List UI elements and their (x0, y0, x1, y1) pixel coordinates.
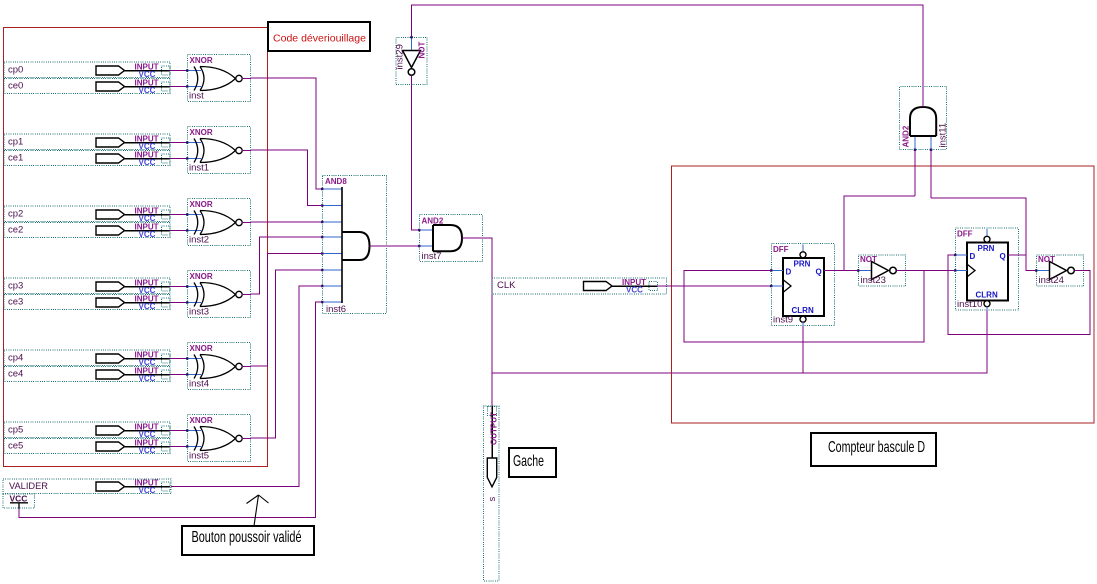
svg-text:ce2: ce2 (8, 225, 23, 236)
AND8 gate inst6 (321, 176, 387, 316)
NOT gate inst24 (1035, 255, 1084, 286)
svg-text:inst2: inst2 (189, 235, 209, 246)
wire cp5 to xnor inst5 (170, 430, 187, 432)
input pin cp3 (4, 278, 170, 295)
svg-text:ce1: ce1 (8, 153, 23, 164)
wire NOT inst29 out down to AND2 inst7 in1 (412, 85, 420, 230)
svg-text:NOT: NOT (418, 42, 427, 59)
svg-text:Gache: Gache (513, 453, 544, 470)
XNOR gate inst2 (186, 199, 251, 246)
svg-text:inst5: inst5 (189, 451, 209, 462)
region box: Compteur bascule D (672, 166, 1095, 423)
input pin ce4 (4, 366, 170, 383)
svg-text:inst11: inst11 (938, 123, 949, 148)
VCC power symbol (3, 494, 35, 509)
svg-text:cp3: cp3 (8, 281, 23, 292)
wire DFF inst9 CLRN down to reset line (802, 326, 804, 373)
svg-text:Compteur bascule D: Compteur bascule D (828, 439, 925, 456)
DFF inst9 (770, 244, 835, 327)
wire ce3 to xnor inst3 (170, 302, 187, 304)
svg-text:inst3: inst3 (189, 307, 209, 318)
svg-text:ce5: ce5 (8, 441, 23, 452)
XNOR gate inst4 (186, 343, 251, 390)
wire DFF inst10 Q to AND2 inst11 in2 and NOT inst24 (931, 150, 1036, 271)
svg-text:ce0: ce0 (8, 81, 23, 92)
svg-text:AND8: AND8 (325, 177, 347, 186)
input pin cp0 (4, 62, 170, 79)
DFF inst10 (954, 228, 1019, 311)
wire xnor inst5 out to AND8 in6 (251, 270, 322, 438)
wire ce5 to xnor inst5 (170, 446, 187, 448)
wire cp4 to xnor inst4 (170, 358, 187, 360)
label box "Compteur bascule D" (811, 433, 936, 466)
wire VCC to AND8 in8 (19, 302, 322, 518)
wire cp3 to xnor inst3 (170, 286, 187, 288)
input pin ce2 (4, 222, 170, 239)
NOT gate inst23 (857, 255, 906, 286)
svg-text:inst7: inst7 (422, 251, 442, 262)
wire NOT inst23 out to DFF inst10 clock and feedback to DFF inst9 D (684, 271, 955, 343)
input pin cp1 (4, 134, 170, 151)
XNOR gate inst (186, 55, 251, 102)
wire xnor inst3 out to AND8 in4 (251, 237, 322, 294)
wire CLRN reset line (492, 311, 987, 374)
input pin VALIDER (3, 479, 171, 496)
svg-text:inst29: inst29 (395, 44, 406, 69)
wire NOT inst24 out feedback to DFF inst10 D (948, 255, 1090, 335)
wire cp2 to xnor inst2 (170, 214, 187, 216)
AND2 gate inst11 (rotated, pointing up) (900, 86, 949, 151)
wire AND2 inst7 out down to Gache / CLRN net (483, 238, 492, 406)
input pin CLK (492, 278, 667, 295)
output pin s (Gache) rotated down (484, 406, 500, 581)
input pin cp2 (4, 206, 170, 223)
input pin cp5 (4, 422, 170, 439)
label box "Bouton poussoir validé" (182, 526, 314, 555)
svg-text:inst4: inst4 (189, 379, 209, 390)
svg-text:cp2: cp2 (8, 209, 23, 220)
svg-text:cp5: cp5 (8, 425, 23, 436)
svg-text:Bouton poussoir validé: Bouton poussoir validé (192, 529, 302, 546)
svg-text:cp0: cp0 (8, 65, 23, 76)
wire xnor inst2 out to AND8 in3 (251, 221, 322, 223)
svg-text:s: s (487, 497, 498, 502)
label box "Gache" (509, 448, 556, 477)
wire top loop: AND2 inst11 out to NOT inst29 in (412, 5, 924, 86)
svg-text:CLK: CLK (497, 280, 516, 291)
label box "Code déveriouillage" (268, 22, 370, 51)
XNOR gate inst1 (186, 127, 251, 174)
wire xnor inst4 out to AND8 in5 (251, 254, 322, 367)
svg-text:inst10: inst10 (957, 299, 982, 310)
wire xnor inst out to AND8 in1 (251, 78, 322, 189)
svg-text:ce3: ce3 (8, 297, 23, 308)
svg-text:OUTPUT: OUTPUT (490, 412, 499, 445)
svg-text:inst1: inst1 (189, 163, 209, 174)
AND2 gate inst7 (418, 215, 483, 263)
svg-text:cp4: cp4 (8, 353, 23, 364)
wire ce2 to xnor inst2 (170, 230, 187, 232)
input pin ce5 (4, 438, 170, 455)
svg-text:inst23: inst23 (861, 275, 886, 286)
XNOR gate inst5 (186, 415, 251, 462)
svg-text:inst24: inst24 (1039, 275, 1064, 286)
svg-text:VALIDER: VALIDER (9, 481, 48, 492)
svg-text:inst6: inst6 (326, 304, 346, 315)
wire CLK to DFF inst9 clock (658, 285, 772, 287)
svg-text:NOT: NOT (1038, 255, 1055, 264)
svg-text:inst: inst (189, 91, 204, 102)
svg-text:cp1: cp1 (8, 137, 23, 148)
XNOR gate inst3 (186, 271, 251, 318)
wire DFF inst9 Q to NOT inst23 and AND2 inst11 in1 (835, 150, 915, 271)
svg-text:Code déveriouillage: Code déveriouillage (273, 33, 366, 45)
svg-text:inst9: inst9 (773, 315, 793, 326)
wire cp0 to xnor inst (170, 70, 187, 72)
annotation arrow to VALIDER wire (247, 495, 269, 526)
wire AND8 out to AND2 inst7 in2 (387, 245, 419, 247)
input pin ce0 (4, 78, 170, 95)
region box: Code deverrouillage (4, 28, 268, 467)
wire xnor inst1 out to AND8 in2 (251, 150, 322, 206)
svg-text:NOT: NOT (860, 255, 877, 264)
svg-text:VCC: VCC (10, 494, 28, 504)
wire VALIDER to AND8 in7 (171, 286, 322, 487)
input pin ce1 (4, 150, 170, 167)
input pin ce3 (4, 294, 170, 311)
svg-text:ce4: ce4 (8, 369, 23, 380)
wire cp1 to xnor inst1 (170, 142, 187, 144)
wire ce0 to xnor inst (170, 86, 187, 88)
wire ce1 to xnor inst1 (170, 158, 187, 160)
input pin cp4 (4, 350, 170, 367)
NOT gate inst29 (rotated, pointing down) (395, 36, 428, 85)
wire ce4 to xnor inst4 (170, 374, 187, 376)
